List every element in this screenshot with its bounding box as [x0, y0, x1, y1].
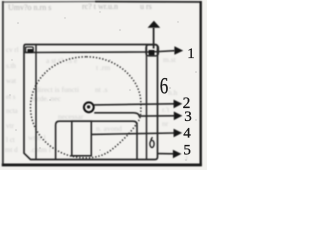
arrow 1 head — [174, 46, 183, 55]
dotted circle: magnetic disk — [31, 57, 141, 158]
svg-text:r.'t: r.'t — [162, 105, 170, 114]
line to arrow 5 — [158, 153, 174, 155]
top rail line continuing as arrow 1 line — [24, 51, 174, 53]
left index tab dark blob — [27, 49, 33, 53]
svg-text:wntr l: wntr l — [28, 133, 46, 142]
svg-text:rc? t wr.u.n: rc? t wr.u.n — [82, 2, 118, 11]
floppy disk jacket outline — [24, 45, 158, 160]
svg-text:secde. nec: secde. nec — [30, 94, 61, 103]
left index tab box — [26, 47, 34, 53]
line to arrow 4 — [92, 133, 175, 134]
svg-text:n. avond: n. avond — [96, 124, 122, 133]
ghost bleed-through text inside and right — [28, 55, 189, 162]
arrow 5 head — [173, 150, 182, 159]
svg-text:.. direct is functi: .. direct is functi — [30, 85, 79, 94]
line to arrow 3 — [94, 113, 175, 116]
write-protect tab dark square — [149, 50, 155, 55]
left seam line — [35, 45, 37, 160]
hub center dot — [87, 105, 90, 108]
svg-text:h.h: h.h — [168, 88, 178, 97]
right seam line — [146, 45, 148, 160]
svg-text:cv rl: cv rl — [6, 46, 19, 54]
svg-text:.cntm l: .cntm l — [30, 145, 51, 154]
svg-text:u rs: u rs — [140, 2, 152, 11]
svg-text:1: 1 — [187, 46, 195, 62]
svg-text:Umv?o n.rn s: Umv?o n.rn s — [8, 3, 51, 12]
svg-text:wat: wat — [6, 77, 16, 85]
svg-text:4: 4 — [183, 125, 191, 141]
shutter rectangle — [56, 121, 137, 159]
svg-text:ncta: ncta — [6, 107, 19, 115]
svg-text:6: 6 — [160, 74, 168, 99]
svg-text:m.st: m.st — [163, 55, 177, 64]
write-protect tab box (top right) — [146, 45, 158, 56]
svg-text:5: 5 — [183, 143, 191, 159]
up arrow head — [148, 21, 161, 28]
svg-text:t .rm: t .rm — [96, 63, 110, 72]
arrow 4 head — [174, 129, 183, 138]
arrow 3 head — [174, 112, 183, 121]
svg-text:vtr: vtr — [6, 122, 14, 130]
svg-text:nr: nr — [162, 119, 169, 128]
ghost bleed-through text top strip — [8, 2, 152, 12]
svg-text:3: 3 — [184, 109, 192, 125]
arrow 2 head — [174, 100, 183, 109]
svg-text:s.th: s.th — [6, 62, 16, 70]
hub circle — [84, 102, 94, 112]
svg-text:nt .s: nt .s — [95, 85, 108, 94]
write-protect hole (teardrop) — [150, 140, 154, 147]
outer frame border of figure — [2, 1, 95, 3]
svg-text:necessar: necessar — [58, 112, 84, 121]
paper speckles — [9, 11, 197, 161]
up arrow shaft — [153, 27, 155, 48]
svg-text:a st t? ..s e: a st t? ..s e — [46, 56, 78, 65]
head window rectangle — [72, 121, 92, 156]
svg-text:mt d: mt d — [5, 146, 18, 154]
line to arrow 2 — [94, 104, 175, 105]
svg-text:l ct: l ct — [6, 136, 15, 144]
svg-text:et s: et s — [6, 93, 16, 101]
ghost bleed-through text left margin — [5, 46, 19, 154]
